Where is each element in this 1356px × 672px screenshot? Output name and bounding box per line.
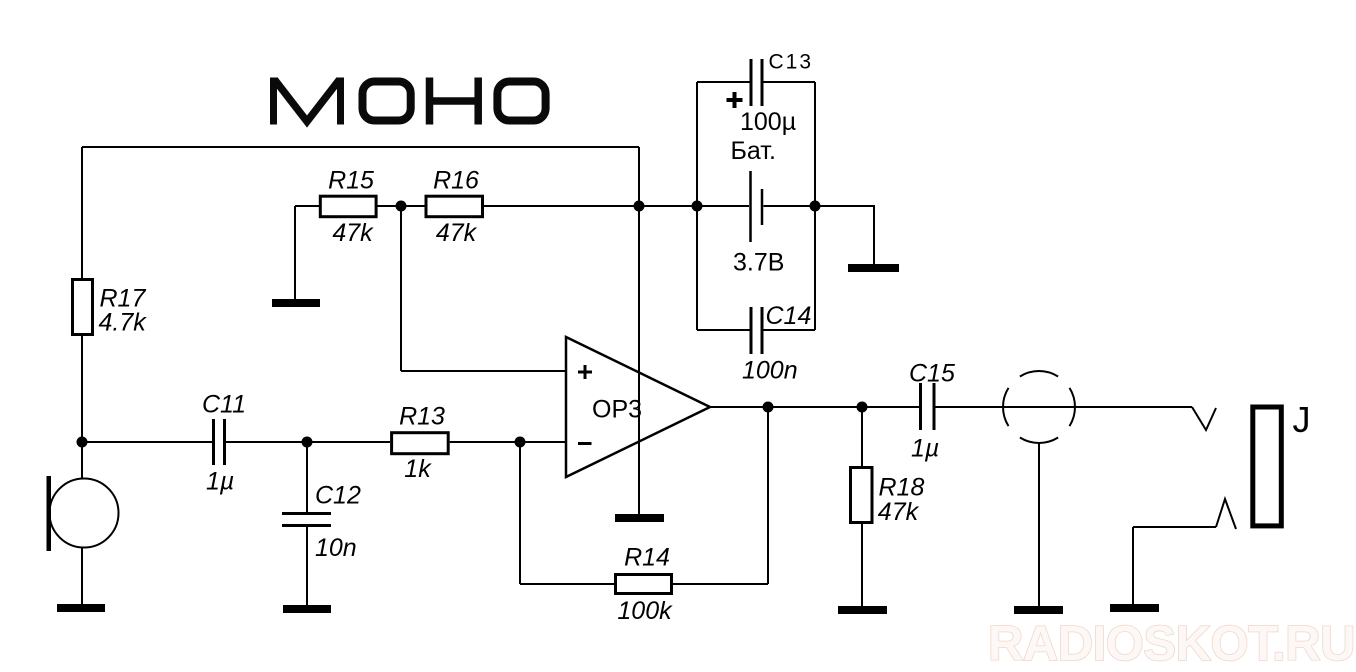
- wire C12 top lead: [306, 442, 308, 513]
- wire shield ground lead: [1038, 443, 1040, 606]
- node mic/C11 junction: [77, 437, 88, 448]
- value 10n: [315, 534, 357, 562]
- watermark radioskot.ru: [988, 617, 1355, 671]
- svg-text:C15: C15: [909, 360, 955, 388]
- wire node to R13: [307, 441, 390, 443]
- label C14: [766, 302, 812, 330]
- microphone BM1: [47, 476, 119, 551]
- wire V+ drop through op-amp: [638, 147, 640, 514]
- label Бат.: [731, 137, 776, 165]
- label C13: [769, 51, 814, 74]
- wire mic bottom lead: [81, 548, 83, 604]
- resistor R16: [426, 196, 483, 217]
- wire main rail mic to C11: [82, 441, 213, 443]
- svg-text:C13: C13: [769, 51, 814, 74]
- svg-text:OP3: OP3: [592, 396, 642, 424]
- wire sleeve horizontal: [1133, 526, 1216, 528]
- value 1k: [404, 455, 432, 483]
- label J: [1293, 399, 1311, 440]
- value 47k (R18): [878, 498, 920, 526]
- pin − (inverting): [578, 442, 592, 445]
- node feedback junction: [515, 437, 526, 448]
- battery box right wire: [814, 82, 816, 330]
- wire C15 to jack tip: [936, 406, 1193, 408]
- value 3.7В: [733, 249, 784, 277]
- svg-text:47k: 47k: [332, 219, 374, 247]
- battery box left wire: [696, 82, 698, 330]
- svg-text:R13: R13: [399, 403, 445, 431]
- wire R15 to R16: [377, 205, 426, 207]
- wire non-inverting input horizontal: [401, 370, 566, 372]
- wire box top left: [697, 81, 750, 83]
- node output junction: [763, 402, 774, 413]
- svg-text:C14: C14: [766, 302, 812, 330]
- battery G1: [751, 171, 763, 242]
- value 100µ: [740, 108, 796, 136]
- label C12: [315, 482, 361, 510]
- svg-text:Бат.: Бат.: [731, 137, 776, 165]
- label R17: [100, 284, 147, 312]
- svg-text:47k: 47k: [436, 219, 478, 247]
- wire feedback right vertical: [767, 407, 769, 584]
- value 4.7k: [99, 309, 148, 337]
- capacitor C15: [921, 383, 935, 430]
- label R15: [328, 167, 374, 195]
- wire R17 bottom lead: [81, 336, 83, 442]
- wire box bottom right: [764, 329, 816, 331]
- svg-text:C12: C12: [315, 482, 361, 510]
- node bias junction: [396, 201, 407, 212]
- wire battery to ground stub: [815, 206, 874, 264]
- svg-text:3.7В: 3.7В: [733, 249, 784, 277]
- wire non-inverting input vertical: [400, 206, 402, 371]
- ground (battery): [848, 264, 899, 272]
- wire top rail: [82, 146, 639, 148]
- wire box top right: [764, 81, 816, 83]
- wire feedback bottom left: [520, 583, 615, 585]
- wire R18 top lead: [861, 407, 863, 467]
- wire feedback bottom right: [672, 583, 768, 585]
- svg-text:C11: C11: [202, 391, 246, 419]
- capacitor C13: [751, 59, 762, 106]
- node battery right: [810, 201, 821, 212]
- wire C12 bottom lead: [306, 525, 308, 605]
- capacitor C11: [214, 419, 225, 465]
- title МОНО: [274, 78, 546, 125]
- value 100n: [742, 357, 798, 385]
- ground (R18): [838, 606, 887, 614]
- wire R15 ground drop: [294, 206, 296, 299]
- ground (op-amp): [615, 514, 664, 522]
- ground (R15): [272, 299, 320, 307]
- wire sleeve vertical: [1132, 527, 1134, 604]
- wire R16 to battery node: [484, 205, 697, 207]
- capacitor C14: [751, 307, 762, 354]
- resistor R14: [616, 575, 672, 594]
- wire battery right lead: [764, 205, 816, 207]
- connector shield (dashed circle): [1003, 371, 1075, 443]
- value 1µ (C11): [206, 468, 234, 496]
- resistor R13: [392, 433, 449, 454]
- ground (C12): [283, 605, 331, 613]
- wire box bottom left: [697, 329, 750, 331]
- jack sleeve contact: [1216, 499, 1236, 529]
- node battery left: [692, 201, 703, 212]
- svg-text:1k: 1k: [404, 455, 432, 483]
- wire R18 bottom lead: [861, 523, 863, 606]
- svg-text:100n: 100n: [742, 357, 798, 385]
- node V+ drop junction: [634, 201, 645, 212]
- resistor R18: [851, 468, 873, 523]
- capacitor C12: [282, 514, 331, 526]
- jack tip contact: [1192, 407, 1216, 430]
- ground (sleeve): [1110, 604, 1159, 612]
- node C12 junction: [302, 437, 313, 448]
- wire op-amp output: [710, 406, 919, 408]
- polarity + (C13): [727, 92, 743, 108]
- label R16: [433, 167, 479, 195]
- wire R15 left stub: [295, 205, 320, 207]
- svg-text:R16: R16: [433, 167, 479, 195]
- svg-text:100k: 100k: [617, 597, 673, 625]
- label C11: [202, 391, 246, 419]
- label R18: [879, 474, 925, 502]
- svg-text:100µ: 100µ: [740, 108, 796, 136]
- resistor R15: [320, 196, 376, 217]
- op-amp OP3: [566, 337, 710, 477]
- svg-text:RADIOSKOT.RU: RADIOSKOT.RU: [988, 617, 1355, 671]
- wire feedback left vertical: [519, 442, 521, 584]
- svg-text:10n: 10n: [315, 534, 357, 562]
- resistor R17: [73, 280, 93, 335]
- label R14: [624, 544, 670, 572]
- label C15: [909, 360, 955, 388]
- jack J body: [1253, 407, 1282, 526]
- label R13: [399, 403, 445, 431]
- svg-text:1µ: 1µ: [206, 468, 234, 496]
- wire R17 top lead: [81, 147, 83, 278]
- value 1µ (C15): [911, 435, 939, 463]
- svg-text:R15: R15: [328, 167, 374, 195]
- value 47k (R16): [436, 219, 478, 247]
- svg-text:R14: R14: [624, 544, 670, 572]
- value 100k: [617, 597, 673, 625]
- svg-text:47k: 47k: [878, 498, 920, 526]
- wire R13 to op-amp inverting input: [450, 441, 566, 443]
- svg-text:J: J: [1293, 399, 1311, 440]
- svg-text:4.7k: 4.7k: [99, 309, 148, 337]
- node R18 junction: [857, 402, 868, 413]
- value 47k (R15): [332, 219, 374, 247]
- pin + (non-inverting): [578, 365, 592, 379]
- svg-text:1µ: 1µ: [911, 435, 939, 463]
- wire mic top lead: [81, 442, 83, 479]
- wire C11 to node: [226, 441, 308, 443]
- ground (mic): [57, 604, 105, 612]
- wire battery left lead: [697, 205, 749, 207]
- ground (shield): [1014, 606, 1063, 614]
- label OP3: [592, 396, 642, 424]
